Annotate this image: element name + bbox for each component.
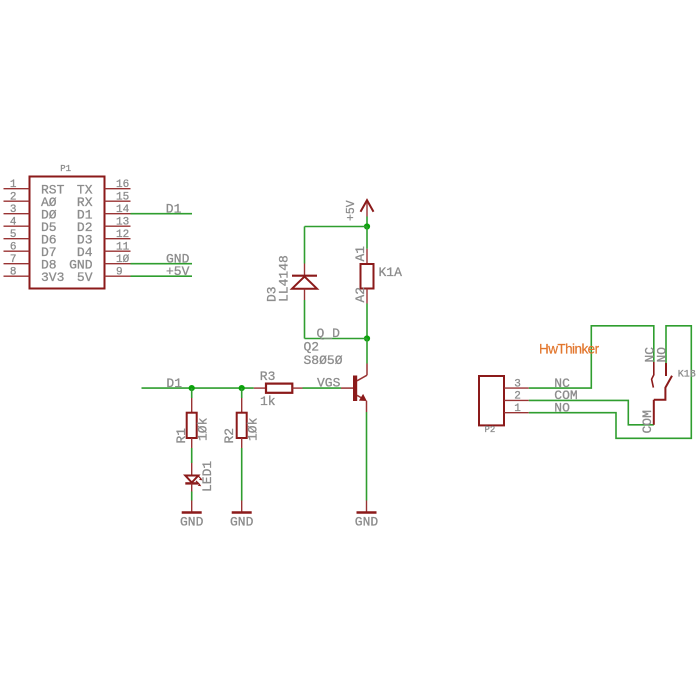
svg-text:R3: R3 bbox=[260, 369, 276, 384]
svg-text:6: 6 bbox=[10, 241, 17, 253]
svg-text:S8Ø5Ø: S8Ø5Ø bbox=[304, 353, 343, 368]
P1 pin 13 D2 bbox=[77, 216, 131, 234]
svg-text:3V3: 3V3 bbox=[41, 270, 64, 285]
svg-text:1k: 1k bbox=[260, 394, 276, 409]
P1 pin 8 3V3 bbox=[4, 266, 65, 284]
svg-text:8: 8 bbox=[10, 266, 17, 278]
svg-text:GND: GND bbox=[230, 515, 254, 530]
P1 pin 11 D4 bbox=[77, 241, 131, 259]
wire Q_D junction down to collector bbox=[366, 339, 368, 364]
svg-text:A2: A2 bbox=[353, 287, 368, 303]
ground symbol at LED1 bbox=[180, 501, 204, 530]
wire net Q_D horizontal bbox=[305, 338, 368, 340]
svg-text:+5V: +5V bbox=[345, 200, 358, 221]
LED LED1 bbox=[185, 463, 202, 492]
wire net D1 lower horizontal run bbox=[142, 387, 254, 389]
wire LED1 to GND bbox=[191, 492, 193, 501]
wire D1 junction down to R2 bbox=[241, 388, 243, 398]
svg-text:LED1: LED1 bbox=[200, 461, 215, 492]
junction at +5V node bbox=[364, 223, 370, 229]
ground symbol at R2 bbox=[230, 501, 254, 530]
wire coil bottom to Q_D junction bbox=[366, 304, 368, 339]
svg-text:P2: P2 bbox=[485, 425, 496, 435]
svg-text:16: 16 bbox=[116, 179, 129, 191]
wire net +5V from P1 pin 9 bbox=[131, 275, 193, 277]
P1 pin 9 5V bbox=[77, 266, 131, 284]
connector P2 body bbox=[479, 376, 504, 425]
svg-text:GND: GND bbox=[355, 515, 379, 530]
svg-text:7: 7 bbox=[10, 254, 17, 266]
wire D1 junction down to R1 bbox=[191, 388, 193, 398]
P1 pin 1 RST bbox=[4, 179, 65, 197]
wire R1 to LED1 bbox=[191, 448, 193, 463]
svg-text:15: 15 bbox=[116, 191, 129, 203]
svg-text:3: 3 bbox=[514, 378, 521, 390]
P1 pin 15 RX bbox=[77, 191, 131, 209]
svg-text:Q_D: Q_D bbox=[317, 326, 341, 341]
svg-text:A1: A1 bbox=[353, 246, 368, 262]
wire net VGS bbox=[303, 387, 342, 389]
connector P1 body bbox=[30, 177, 105, 289]
svg-text:2: 2 bbox=[514, 391, 521, 403]
svg-text:5: 5 bbox=[10, 229, 17, 241]
svg-text:13: 13 bbox=[116, 216, 129, 228]
transistor Q2 S8050 bbox=[341, 364, 367, 413]
svg-text:2: 2 bbox=[10, 191, 17, 203]
svg-text:14: 14 bbox=[116, 204, 130, 216]
svg-text:11: 11 bbox=[116, 241, 130, 253]
svg-text:NO: NO bbox=[655, 347, 670, 363]
wire net GND from P1 pin 10 bbox=[131, 263, 193, 265]
svg-text:5V: 5V bbox=[77, 270, 93, 285]
svg-text:4: 4 bbox=[10, 216, 17, 228]
P1 pin 14 D1 bbox=[77, 204, 131, 222]
wire net NC from P2 pin 3 bbox=[529, 326, 654, 388]
wire +5V node down to relay coil bbox=[366, 227, 368, 249]
relay contact K1B bbox=[652, 362, 672, 425]
wire R2 to GND bbox=[241, 448, 243, 501]
P1 pin 4 D5 bbox=[4, 216, 57, 234]
P1 pin 5 D6 bbox=[4, 229, 57, 247]
svg-text:D1: D1 bbox=[166, 201, 182, 216]
svg-text:D1: D1 bbox=[166, 376, 182, 391]
svg-text:3: 3 bbox=[10, 204, 17, 216]
P1 pin 10 GND bbox=[69, 254, 130, 272]
svg-text:LL4148: LL4148 bbox=[277, 255, 292, 302]
svg-text:NO: NO bbox=[554, 401, 570, 416]
+5V power symbol bbox=[345, 200, 374, 221]
svg-text:R1: R1 bbox=[174, 428, 189, 444]
resistor R2 10k bbox=[237, 398, 247, 448]
svg-text:K1A: K1A bbox=[379, 265, 403, 280]
P2 pin 3 bbox=[504, 378, 529, 390]
P1 pin 2 A0 bbox=[4, 191, 57, 209]
resistor R3 1k bbox=[254, 384, 303, 393]
ground symbol at Q2 emitter bbox=[355, 501, 379, 530]
relay coil K1A bbox=[361, 249, 374, 304]
svg-text:9: 9 bbox=[116, 266, 123, 278]
svg-text:VGS: VGS bbox=[317, 375, 341, 390]
svg-text:12: 12 bbox=[116, 229, 129, 241]
P2 pin 2 bbox=[504, 391, 529, 403]
P1 pin 16 TX bbox=[77, 179, 131, 197]
wire emitter to GND bbox=[366, 412, 368, 501]
P1 pin 6 D7 bbox=[4, 241, 57, 259]
wire diode branch vertical down bbox=[304, 227, 306, 264]
wire net NO from P2 pin 1 bbox=[529, 326, 692, 439]
wire diode anode down to Q_D net bbox=[304, 300, 306, 339]
P1 pin 3 D0 bbox=[4, 204, 57, 222]
svg-text:HwThinker: HwThinker bbox=[539, 342, 600, 357]
svg-text:1Øk: 1Øk bbox=[196, 417, 211, 441]
svg-text:+5V: +5V bbox=[166, 264, 190, 279]
svg-text:1Øk: 1Øk bbox=[246, 417, 261, 441]
junction Q_D node bbox=[364, 335, 370, 341]
wire +5V stem to junction bbox=[366, 217, 368, 227]
svg-text:COM: COM bbox=[640, 410, 655, 433]
P2 pin 1 bbox=[504, 403, 529, 415]
svg-text:1: 1 bbox=[10, 179, 17, 191]
junction D1/R1 bbox=[189, 385, 195, 391]
svg-text:1: 1 bbox=[514, 403, 521, 415]
P1 pin 12 D3 bbox=[77, 229, 131, 247]
junction D1/R2 bbox=[239, 385, 245, 391]
resistor R1 10k bbox=[187, 398, 197, 448]
svg-text:GND: GND bbox=[180, 515, 204, 530]
svg-text:1Ø: 1Ø bbox=[116, 254, 130, 266]
P1 pin 7 D8 bbox=[4, 254, 57, 272]
wire +5V node horizontal to diode branch bbox=[305, 226, 368, 228]
svg-text:R2: R2 bbox=[222, 428, 237, 444]
svg-text:K1B: K1B bbox=[678, 370, 696, 381]
wire net COM from P2 pin 2 bbox=[529, 400, 654, 424]
wire net D1 from P1 pin 14 bbox=[131, 213, 193, 215]
diode D3 LL4148 bbox=[292, 264, 317, 301]
svg-text:P1: P1 bbox=[60, 164, 71, 174]
